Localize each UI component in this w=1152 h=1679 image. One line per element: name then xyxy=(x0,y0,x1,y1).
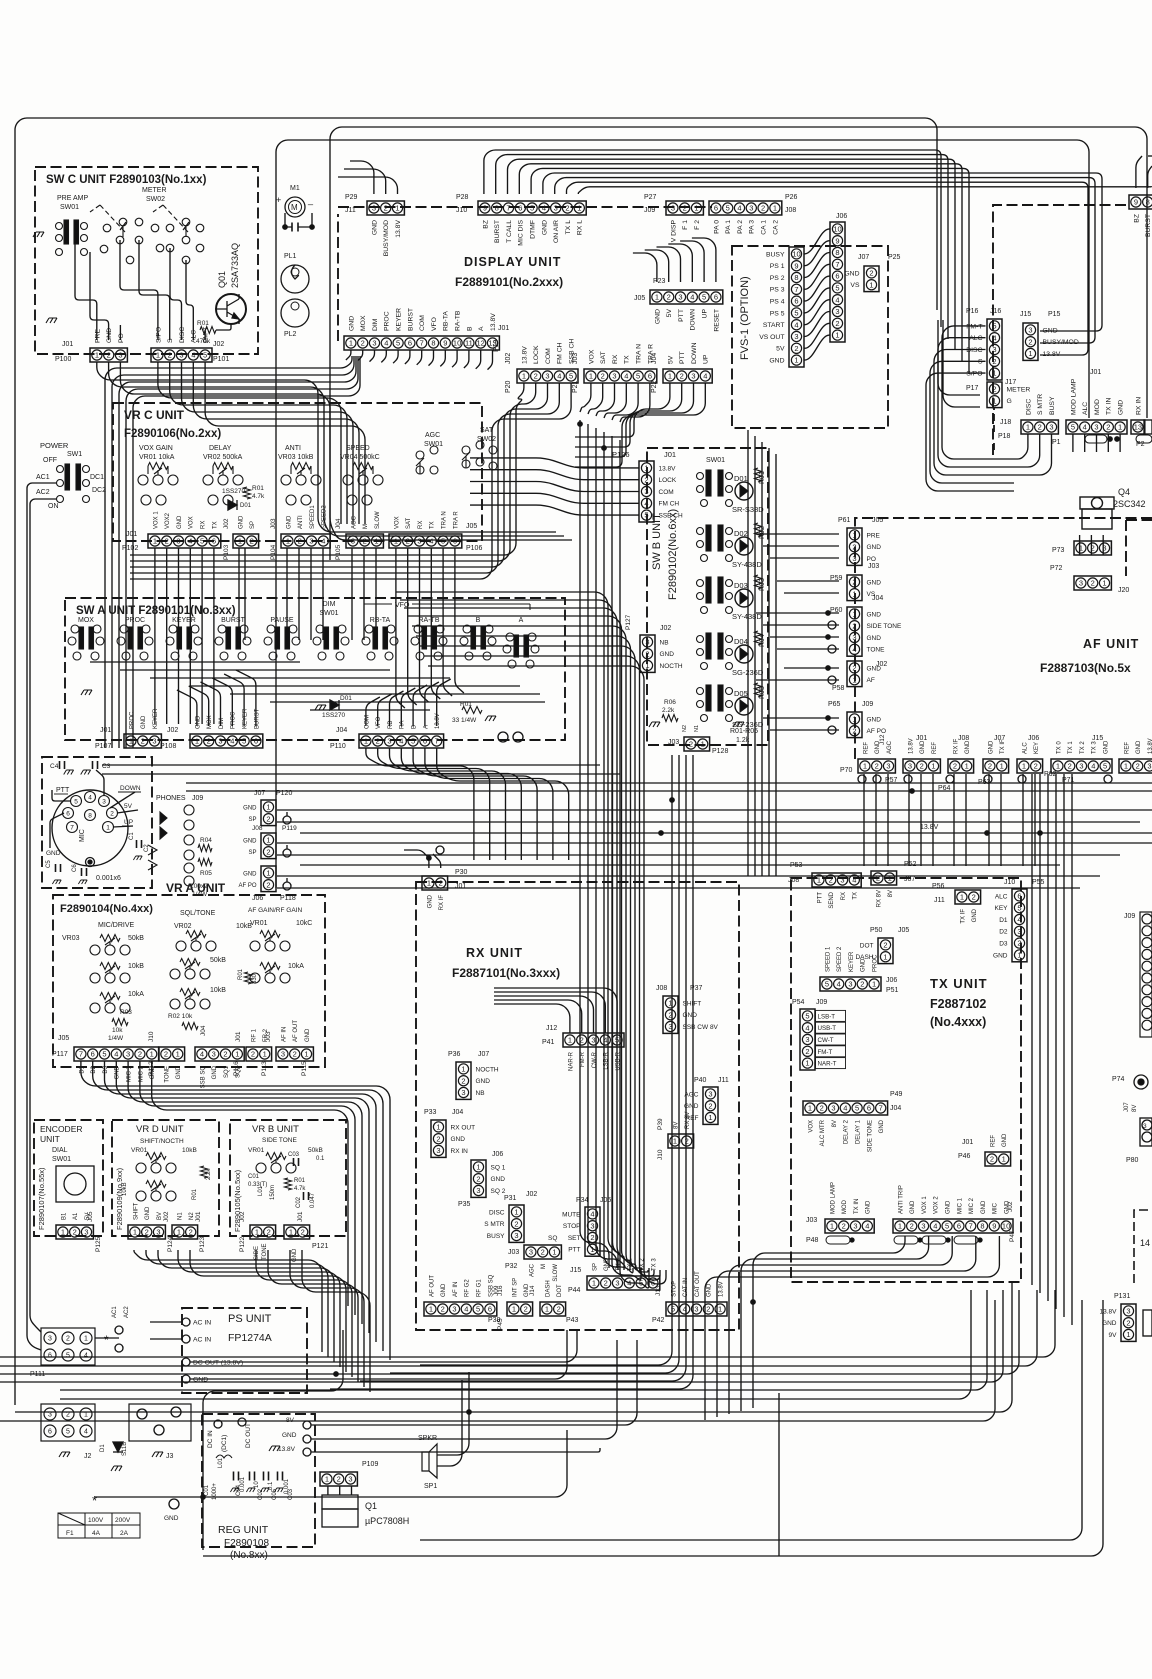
svg-text:TX 3: TX 3 xyxy=(1092,741,1098,754)
wire xyxy=(1119,434,1121,452)
svg-text:10kB: 10kB xyxy=(122,1182,128,1196)
wire xyxy=(938,338,1014,467)
svg-text:OFF: OFF xyxy=(43,457,57,464)
svg-text:2: 2 xyxy=(541,1248,545,1257)
wire AF stub xyxy=(763,545,839,547)
bus vertical xyxy=(604,432,633,1273)
svg-text:MIC: MIC xyxy=(993,1202,999,1214)
svg-text:1: 1 xyxy=(1126,1330,1130,1339)
ground xyxy=(649,722,660,727)
svg-text:1: 1 xyxy=(1124,762,1128,771)
wire AF stub xyxy=(770,557,839,559)
svg-text:P115: P115 xyxy=(301,1061,308,1076)
svg-text:GND: GND xyxy=(867,544,882,551)
svg-text:2: 2 xyxy=(876,874,880,883)
svg-text:ANTI: ANTI xyxy=(298,515,304,529)
wire xyxy=(346,350,351,360)
svg-text:µPC7808H: µPC7808H xyxy=(365,1516,409,1526)
svg-text:1: 1 xyxy=(589,372,593,381)
wire xyxy=(404,850,429,868)
svg-text:2: 2 xyxy=(689,740,693,749)
svg-text:2: 2 xyxy=(436,1134,440,1143)
svg-text:2: 2 xyxy=(406,537,410,546)
svg-text:S: S xyxy=(167,338,174,343)
wire xyxy=(455,548,464,693)
svg-text:5V: 5V xyxy=(776,346,785,353)
svg-text:AGC: AGC xyxy=(425,432,440,439)
wire xyxy=(298,213,312,227)
pot row2 xyxy=(90,963,130,984)
svg-text:Q01: Q01 xyxy=(217,271,227,288)
AF UNIT dashed border xyxy=(855,518,1152,759)
connector J06/P51 xyxy=(820,977,881,991)
svg-text:2: 2 xyxy=(645,649,649,658)
connector J03/P32 xyxy=(524,1245,561,1259)
svg-text:GND: GND xyxy=(867,579,882,586)
connector P59/J03 xyxy=(847,575,862,601)
svg-text:NB: NB xyxy=(476,1090,485,1097)
svg-text:4: 4 xyxy=(84,1429,88,1436)
svg-text:1: 1 xyxy=(176,1050,180,1059)
svg-text:2: 2 xyxy=(266,814,270,823)
svg-text:2: 2 xyxy=(852,726,856,735)
svg-text:3: 3 xyxy=(281,1050,285,1059)
svg-text:2: 2 xyxy=(1017,939,1021,948)
svg-text:RX: RX xyxy=(612,354,619,364)
svg-text:GND: GND xyxy=(1002,1133,1008,1147)
svg-text:1: 1 xyxy=(1000,762,1004,771)
second row circles xyxy=(141,495,372,505)
bus vertical right low xyxy=(1031,774,1033,1285)
svg-text:13.8V: 13.8V xyxy=(908,738,914,754)
svg-text:SEND: SEND xyxy=(829,891,835,908)
wire 8V rail xyxy=(311,1340,637,1425)
svg-text:PROC: PROC xyxy=(125,617,145,624)
svg-text:DISC: DISC xyxy=(966,347,982,354)
svg-text:2: 2 xyxy=(820,1104,824,1113)
svg-text:2: 2 xyxy=(251,1050,255,1059)
svg-text:6: 6 xyxy=(254,737,258,746)
connector J-right clipped xyxy=(1119,759,1152,773)
svg-text:13.8V: 13.8V xyxy=(1148,738,1152,754)
8V GND 13.8V outputs xyxy=(303,1421,311,1429)
svg-text:UP: UP xyxy=(703,354,710,364)
svg-text:1: 1 xyxy=(436,1123,440,1132)
svg-text:RB: RB xyxy=(388,721,394,729)
svg-text:1: 1 xyxy=(817,876,821,885)
svg-text:J06: J06 xyxy=(252,895,263,902)
svg-text:J01: J01 xyxy=(498,325,509,332)
svg-text:2: 2 xyxy=(601,372,605,381)
svg-text:2: 2 xyxy=(66,1336,70,1343)
svg-text:CAT OUT: CAT OUT xyxy=(695,1271,701,1297)
jumper xyxy=(922,1236,946,1244)
switch/LED group D04 xyxy=(697,631,762,670)
svg-text:C04: C04 xyxy=(236,1484,242,1496)
wire P100 out xyxy=(97,362,556,532)
wire xyxy=(417,350,422,365)
svg-text:3: 3 xyxy=(831,1104,835,1113)
svg-text:2: 2 xyxy=(1038,423,1042,432)
svg-text:50kB: 50kB xyxy=(210,957,226,964)
svg-text:VR01 10kA: VR01 10kA xyxy=(139,454,175,461)
svg-text:2: 2 xyxy=(685,1137,689,1146)
svg-text:AF OUT: AF OUT xyxy=(429,1275,435,1297)
connector J01/P100 xyxy=(90,348,127,362)
svg-text:PRE: PRE xyxy=(867,532,881,539)
svg-text:SP: SP xyxy=(250,521,256,529)
wire xyxy=(1072,434,1074,452)
svg-text:0.047: 0.047 xyxy=(310,1192,316,1208)
wire switch bus xyxy=(150,677,450,679)
svg-text:3: 3 xyxy=(591,1036,595,1045)
svg-text:4: 4 xyxy=(644,499,648,508)
svg-text:KEY: KEY xyxy=(1034,742,1040,754)
svg-text:VR04 500kC: VR04 500kC xyxy=(340,454,380,461)
svg-text:VR03 10kB: VR03 10kB xyxy=(278,454,314,461)
svg-text:R04: R04 xyxy=(200,837,212,844)
svg-text:GND: GND xyxy=(988,740,994,754)
connector J06 xyxy=(830,222,845,342)
svg-text:2: 2 xyxy=(189,1228,193,1237)
VR A UNIT box xyxy=(53,895,325,1067)
svg-text:PS 4: PS 4 xyxy=(770,299,785,306)
svg-text:2A: 2A xyxy=(120,1530,129,1537)
svg-text:J02: J02 xyxy=(876,661,887,668)
bus wire P19 left xyxy=(126,356,358,748)
svg-text:2: 2 xyxy=(1034,762,1038,771)
svg-text:DELAY 2: DELAY 2 xyxy=(844,1119,850,1144)
svg-text:P23: P23 xyxy=(653,278,666,285)
svg-text:1: 1 xyxy=(427,879,431,888)
svg-text:L01: L01 xyxy=(258,1185,264,1196)
connector J3 xyxy=(129,1404,191,1441)
svg-text:8: 8 xyxy=(1146,198,1150,207)
wire xyxy=(633,253,657,282)
connector P36/J07 xyxy=(456,1062,471,1099)
svg-text:AF OUT: AF OUT xyxy=(293,1020,299,1042)
svg-text:5: 5 xyxy=(615,1036,619,1045)
svg-text:B: B xyxy=(466,326,473,331)
bus wire mid xyxy=(186,782,1152,784)
svg-text:J01: J01 xyxy=(235,1031,242,1042)
connector P127/J02 xyxy=(640,635,655,672)
svg-text:AGC: AGC xyxy=(887,740,893,754)
svg-text:S11B: S11B xyxy=(122,1442,128,1456)
svg-text:5: 5 xyxy=(242,737,246,746)
svg-text:2: 2 xyxy=(1091,579,1095,588)
svg-text:J02: J02 xyxy=(167,727,178,734)
svg-text:GND: GND xyxy=(115,1065,121,1079)
svg-text:S: S xyxy=(978,359,983,366)
svg-text:ALC: ALC xyxy=(969,335,982,342)
svg-text:VR02: VR02 xyxy=(174,923,192,930)
jumper P2 xyxy=(1136,435,1152,443)
svg-text:2: 2 xyxy=(860,980,864,989)
svg-text:3: 3 xyxy=(708,1090,712,1099)
svg-text:J06: J06 xyxy=(886,977,897,984)
svg-text:6: 6 xyxy=(794,297,798,306)
wire xyxy=(256,1250,352,1377)
bus vertical right xyxy=(768,448,770,876)
svg-text:G: G xyxy=(1007,398,1012,405)
caps inside REG xyxy=(234,1472,239,1481)
junction xyxy=(910,789,914,793)
wire xyxy=(805,335,830,360)
svg-text:USB-R: USB-R xyxy=(616,1051,622,1070)
svg-text:SW A UNIT F2890101(No.3xx): SW A UNIT F2890101(No.3xx) xyxy=(76,605,236,617)
wire to Q01 xyxy=(216,324,231,330)
bus wire band xyxy=(400,600,624,1270)
svg-text:TX 0: TX 0 xyxy=(1056,741,1062,754)
svg-text:7: 7 xyxy=(835,260,839,269)
junction xyxy=(985,831,989,835)
wire xyxy=(805,253,830,278)
jumper xyxy=(826,1236,850,1244)
svg-text:P80: P80 xyxy=(1126,1157,1139,1164)
connector P20/J02 xyxy=(517,369,578,383)
svg-text:SW01: SW01 xyxy=(706,457,725,464)
svg-text:GND: GND xyxy=(604,1257,610,1271)
bus wire bottom xyxy=(60,1290,987,1390)
SW C UNIT box xyxy=(35,167,258,354)
svg-text:1: 1 xyxy=(568,1036,572,1045)
svg-text:B: B xyxy=(412,725,418,729)
svg-text:1: 1 xyxy=(1056,762,1060,771)
svg-text:P30: P30 xyxy=(455,869,468,876)
bus wire mid xyxy=(300,832,1152,834)
svg-text:6: 6 xyxy=(835,272,839,281)
wire AF stub xyxy=(763,717,839,719)
svg-text:SSB CH: SSB CH xyxy=(659,513,684,520)
svg-text:D01: D01 xyxy=(340,695,352,702)
svg-text:3: 3 xyxy=(84,1228,88,1237)
svg-text:DC1: DC1 xyxy=(90,474,104,481)
svg-text:FVS-1 (OPTION): FVS-1 (OPTION) xyxy=(739,276,751,360)
svg-text:DISC: DISC xyxy=(179,327,186,343)
junction xyxy=(670,798,674,802)
bus wire bottom xyxy=(15,1282,1012,1412)
svg-text:GND: GND xyxy=(867,716,882,723)
svg-text:GND: GND xyxy=(46,850,61,857)
svg-text:C6: C6 xyxy=(72,864,78,872)
svg-text:1: 1 xyxy=(156,351,160,360)
svg-text:4: 4 xyxy=(114,1050,118,1059)
wire switch bus xyxy=(270,701,545,703)
meter M1 xyxy=(285,197,305,217)
svg-text:*: * xyxy=(104,1333,109,1347)
wire xyxy=(154,548,156,724)
svg-text:5: 5 xyxy=(1017,903,1021,912)
coax P74 xyxy=(1134,1075,1148,1089)
connector P1/J01 xyxy=(1066,420,1127,434)
connector J01/P113 xyxy=(246,1047,272,1061)
svg-text:P17: P17 xyxy=(966,385,979,392)
svg-text:3: 3 xyxy=(852,554,856,563)
bus wire band xyxy=(420,646,654,1276)
svg-text:J14: J14 xyxy=(529,1285,536,1296)
svg-text:6: 6 xyxy=(648,372,652,381)
svg-text:3: 3 xyxy=(1143,1123,1147,1130)
wire xyxy=(238,548,240,640)
svg-text:2: 2 xyxy=(680,372,684,381)
svg-text:BUSY: BUSY xyxy=(766,251,785,258)
connector J07 right xyxy=(1140,1118,1152,1146)
svg-text:3: 3 xyxy=(1049,423,1053,432)
connector J15/P44 xyxy=(587,1276,660,1290)
svg-text:4: 4 xyxy=(1017,915,1021,924)
svg-text:R01: R01 xyxy=(192,1188,198,1200)
wire xyxy=(440,350,445,366)
wire xyxy=(494,988,617,1033)
svg-text:1: 1 xyxy=(394,537,398,546)
switch DIM xyxy=(313,625,349,660)
svg-text:J07: J07 xyxy=(904,876,915,883)
svg-text:RX UNIT: RX UNIT xyxy=(466,946,523,960)
svg-text:J08: J08 xyxy=(788,877,799,884)
bus vertical xyxy=(420,755,672,1365)
svg-text:10kB: 10kB xyxy=(128,963,144,970)
svg-text:5: 5 xyxy=(203,351,207,360)
svg-text:P41: P41 xyxy=(542,1039,555,1046)
connector J03/P128 xyxy=(684,737,710,751)
svg-text:ALC: ALC xyxy=(1082,402,1089,415)
svg-text:P101: P101 xyxy=(213,356,229,363)
svg-text:J02: J02 xyxy=(223,518,230,529)
svg-text:3: 3 xyxy=(992,345,996,354)
speaker SP1 xyxy=(422,1444,437,1478)
wire mic xyxy=(117,810,138,813)
svg-text:2: 2 xyxy=(992,357,996,366)
bus vertical xyxy=(360,755,686,1381)
svg-text:2: 2 xyxy=(293,1050,297,1059)
svg-text:F 1: F 1 xyxy=(682,220,689,230)
svg-text:1SS270: 1SS270 xyxy=(222,488,246,495)
svg-text:MIC/DRIVE: MIC/DRIVE xyxy=(98,922,135,929)
connector P29/J11 xyxy=(367,201,404,215)
svg-text:1: 1 xyxy=(668,999,672,1008)
svg-text:DISC: DISC xyxy=(489,1209,505,1216)
svg-text:GND: GND xyxy=(910,1200,916,1214)
bus wire bottom xyxy=(60,1290,971,1399)
svg-text:10: 10 xyxy=(833,225,841,234)
svg-text:4: 4 xyxy=(933,1222,937,1231)
svg-text:FP1274A: FP1274A xyxy=(228,1332,272,1344)
wire P28 bus xyxy=(578,187,1152,194)
bus vertical right low xyxy=(1055,774,1057,1309)
svg-text:ALC: ALC xyxy=(191,330,198,343)
wire xyxy=(1014,434,1028,459)
svg-text:1: 1 xyxy=(304,1050,308,1059)
svg-text:AC IN: AC IN xyxy=(193,1337,211,1344)
svg-text:+: + xyxy=(276,195,281,205)
svg-text:DIM: DIM xyxy=(323,601,336,608)
svg-text:P121: P121 xyxy=(312,1243,328,1250)
svg-text:MOD: MOD xyxy=(1094,399,1101,415)
svg-text:P125: P125 xyxy=(95,1236,102,1252)
svg-text:10kA: 10kA xyxy=(128,991,144,998)
svg-text:1: 1 xyxy=(644,464,648,473)
svg-text:SY-438D: SY-438D xyxy=(732,560,762,569)
bus wire bottom xyxy=(0,1290,1019,1374)
svg-text:SIDE: SIDE xyxy=(254,1246,260,1260)
svg-text:P16: P16 xyxy=(966,308,979,315)
wire g xyxy=(943,320,980,407)
connector P33/J04 xyxy=(431,1120,446,1157)
svg-text:P55: P55 xyxy=(1032,879,1045,886)
wire xyxy=(926,373,1014,491)
wire P22 run xyxy=(575,383,682,447)
svg-text:1: 1 xyxy=(1017,951,1021,960)
svg-text:13.8V: 13.8V xyxy=(278,1446,296,1453)
svg-text:4: 4 xyxy=(1083,423,1087,432)
svg-text:F2887103(No.5x: F2887103(No.5x xyxy=(1040,661,1131,675)
svg-text:R01-R05: R01-R05 xyxy=(730,728,758,735)
svg-text:GND: GND xyxy=(844,270,859,277)
terminal xyxy=(828,621,836,629)
svg-text:RX: RX xyxy=(841,892,847,900)
wire bus to P126 xyxy=(470,458,639,468)
wire xyxy=(166,548,168,724)
jumper xyxy=(894,1236,918,1244)
svg-text:J05: J05 xyxy=(87,1211,94,1222)
svg-text:GND: GND xyxy=(212,1065,218,1079)
svg-text:P35: P35 xyxy=(458,1201,471,1208)
svg-text:P122: P122 xyxy=(239,1236,246,1252)
wire gnd rail xyxy=(311,1340,617,1439)
svg-text:1: 1 xyxy=(883,952,887,961)
connector P27/J09 xyxy=(666,201,703,215)
svg-text:1: 1 xyxy=(1002,1155,1006,1164)
clipped strip right xyxy=(1144,420,1152,434)
svg-text:SQ 1: SQ 1 xyxy=(491,1164,506,1171)
wire xyxy=(1096,434,1098,452)
wire xyxy=(120,240,158,340)
wire xyxy=(1107,434,1109,452)
wire xyxy=(805,288,830,313)
connector P60/J04 xyxy=(847,607,862,656)
svg-text:GND: GND xyxy=(106,328,113,343)
svg-text:VR C UNIT: VR C UNIT xyxy=(124,408,185,422)
wire xyxy=(366,697,380,726)
wire xyxy=(668,244,692,282)
svg-text:PROC: PROC xyxy=(384,311,391,331)
svg-text:1: 1 xyxy=(374,537,378,546)
bus wire P19 left xyxy=(112,356,354,748)
wire P22 run xyxy=(575,383,670,437)
svg-text:KEYER: KEYER xyxy=(849,951,855,972)
svg-text:TX: TX xyxy=(853,892,859,900)
svg-text:4.7k: 4.7k xyxy=(252,493,265,500)
svg-text:J02: J02 xyxy=(163,1211,170,1222)
junction xyxy=(578,422,582,426)
svg-text:TRA N: TRA N xyxy=(442,511,448,529)
wire xyxy=(408,548,417,705)
svg-text:2: 2 xyxy=(266,847,270,856)
wire AF stub xyxy=(777,648,839,650)
svg-text:P54: P54 xyxy=(792,999,805,1006)
wire stub xyxy=(920,774,922,866)
svg-text:SW C UNIT F2890103(No.1xx): SW C UNIT F2890103(No.1xx) xyxy=(46,174,207,186)
svg-text:SPEED1: SPEED1 xyxy=(310,505,316,529)
svg-text:13: 13 xyxy=(1134,423,1142,432)
wire mic xyxy=(96,770,104,796)
svg-text:1/4W: 1/4W xyxy=(108,1035,124,1042)
wire xyxy=(805,300,830,325)
svg-text:R01: R01 xyxy=(252,485,264,492)
svg-text:ANTI TRIP: ANTI TRIP xyxy=(898,1185,904,1214)
svg-text:3: 3 xyxy=(545,372,549,381)
